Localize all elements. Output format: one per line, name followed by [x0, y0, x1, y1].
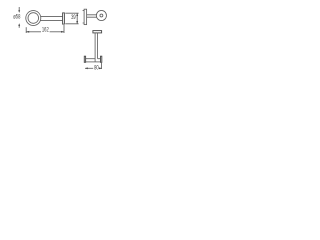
svg-text:ø58: ø58 [13, 14, 20, 21]
svg-text:80: 80 [94, 65, 99, 72]
dim 39 vertical line [76, 13, 78, 24]
dim ø58 top segment [18, 7, 20, 11]
80 right arrow [99, 67, 102, 69]
side view: ring outer [96, 10, 106, 20]
dim 80 right extension [101, 63, 103, 69]
bottom rail right end cap [101, 56, 102, 62]
dim 162: right extension line [63, 25, 65, 33]
dim 162: left extension line [25, 27, 27, 33]
arrowheads [18, 10, 101, 69]
162 right arrow [61, 31, 64, 33]
bracket T-cap [93, 31, 102, 33]
bottom rail top line right segment [98, 58, 101, 60]
bar bottom line [40, 20, 62, 22]
end cap [63, 13, 65, 24]
side view: rose plate [84, 9, 87, 24]
ø58 bottom arrow (points up to inner circle bottom) [18, 23, 20, 26]
front view: rose inner circle [28, 13, 39, 24]
39 top arrow [76, 13, 78, 16]
dim 162 line left part [26, 31, 41, 33]
bar top line [40, 15, 62, 17]
bracket post left line [94, 33, 96, 62]
svg-text:162: 162 [42, 27, 49, 34]
80 left arrow [85, 67, 88, 69]
bracket post right line [97, 33, 99, 59]
side view: back plate ticks [83, 11, 85, 23]
ø58 top arrow (points down to inner circle top) [18, 10, 20, 13]
dim 162 line right part [50, 31, 64, 33]
bottom rail left end cap [84, 56, 85, 62]
dim 39: extension lines [65, 13, 78, 24]
162 left arrow [26, 31, 29, 33]
bottom rail bottom line [86, 61, 101, 63]
dim 80 line right part [100, 67, 102, 69]
side view: ring inner [100, 14, 103, 17]
side view: stem top/bottom [87, 15, 97, 17]
front view: rose outer circle [26, 11, 41, 26]
svg-text:39: 39 [71, 14, 76, 21]
bottom rail top line left segment [86, 58, 95, 60]
dim ø58 bottom segment [18, 25, 20, 28]
dim 80 line left part [85, 67, 93, 69]
39 bottom arrow [76, 21, 78, 24]
